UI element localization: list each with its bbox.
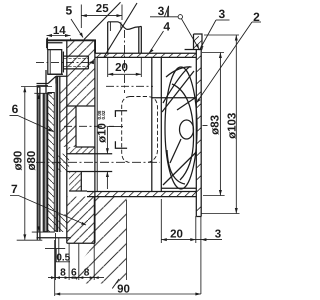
hub rear face line (96, 57, 98, 191)
inner plates (56, 77, 60, 233)
svg-text:ø103: ø103 (227, 113, 239, 139)
leader label 7 (10, 196, 86, 226)
fan clutch right face (151, 57, 153, 191)
hidden fan hub dashed outline (122, 97, 158, 163)
bolt axis centerline (36, 61, 93, 63)
impeller inner arc right (172, 84, 194, 180)
weld symbol 3 (150, 6, 199, 49)
svg-text:ø80: ø80 (26, 151, 38, 171)
dim diam80 (32, 93, 52, 232)
big support block hatch (76, 197, 127, 284)
hub pocket boundary (67, 106, 95, 191)
impeller blade lines (162, 67, 196, 186)
svg-text:3: 3 (158, 4, 165, 18)
leader label 6 (10, 115, 54, 131)
dim 0.5 (45, 238, 70, 262)
oblique strokes of dim 25 (84, 2, 121, 39)
leader label 2 (196, 22, 261, 103)
bottom cover plate hatched strip (87, 192, 196, 197)
svg-text:0.5: 0.5 (56, 253, 70, 264)
top boss with break line (108, 22, 142, 53)
bolt head (48, 50, 64, 75)
svg-text:4: 4 (163, 19, 170, 33)
svg-text:7: 7 (11, 182, 18, 196)
bore lines (67, 154, 112, 191)
fan hub top line (152, 97, 197, 99)
dim 20 bottom and 3 (161, 199, 222, 294)
dim diam90 (17, 87, 52, 241)
dim 90 bottom (55, 240, 201, 296)
dim diam10 with arrows outside bore (106, 127, 123, 190)
svg-text:5: 5 (65, 4, 72, 18)
leader label 5 (71, 19, 83, 38)
svg-text:6: 6 (71, 268, 77, 279)
svg-text:ø90: ø90 (12, 151, 24, 171)
dim 25 (81, 2, 137, 57)
leader label 4 (149, 31, 164, 53)
centerline tick near diam83 (203, 125, 208, 127)
dim 14 (47, 34, 71, 48)
svg-text:0.02: 0.02 (101, 110, 106, 119)
svg-text:3: 3 (218, 7, 225, 21)
svg-text:2: 2 (253, 10, 260, 24)
svg-text:20: 20 (115, 62, 128, 74)
pin hidden centerline (64, 125, 114, 127)
svg-text:14: 14 (53, 25, 66, 37)
bearing centerline y86 (106, 85, 153, 87)
hub hatching upper (67, 41, 95, 106)
clutch disc plates left (37, 87, 72, 240)
impeller inner arc lower-left (167, 150, 185, 184)
housing right wall (part 3) (185, 34, 202, 217)
svg-text:ø83: ø83 (209, 115, 221, 135)
svg-text:90: 90 (117, 284, 130, 296)
dim 20 top (108, 58, 142, 77)
svg-text:20: 20 (170, 228, 183, 240)
boss vertical centerline (124, 30, 126, 93)
impeller outline big oval (165, 67, 197, 189)
svg-text:ø10: ø10 (97, 123, 109, 143)
bracket under bolt head (37, 70, 67, 93)
top cover plate (part 4) hatched strip (95, 53, 196, 57)
leader label 3 (200, 20, 230, 50)
bore left wall hatch (57, 154, 69, 172)
dim diam103 (201, 35, 239, 214)
main axis centerline (36, 161, 160, 163)
bolt threaded shank (63, 56, 93, 69)
dims 8 6 8 (48, 197, 104, 280)
impeller small hub ellipse (180, 120, 194, 139)
hidden pin brackets (115, 111, 127, 148)
hub (part 5) outline (47, 38, 95, 244)
dim diam83 (202, 53, 225, 196)
svg-text:6: 6 (12, 102, 19, 116)
svg-text:25: 25 (96, 3, 109, 15)
disc lower chevron hatch (54, 214, 67, 232)
svg-text:3: 3 (215, 229, 221, 241)
fan ring left edge (160, 57, 162, 191)
fan bottom line (161, 187, 196, 189)
svg-text:8: 8 (60, 268, 66, 279)
hub hatching lower (69, 172, 81, 192)
disc hatched band (48, 93, 55, 233)
svg-text:8: 8 (84, 268, 90, 279)
